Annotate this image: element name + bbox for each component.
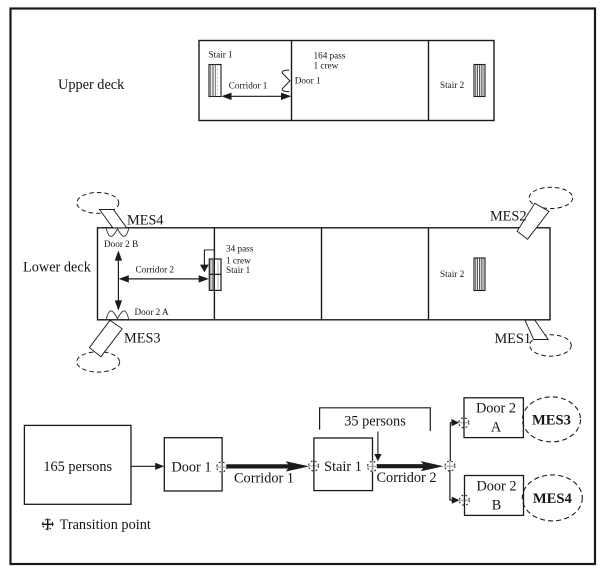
svg-text:Stair 1: Stair 1 [209,50,234,60]
stair symbol Stair 2 (lower deck) [474,258,485,291]
svg-text:Corridor 2: Corridor 2 [377,470,437,486]
35 persons bracket [320,408,431,431]
Corridor 1 flow arrow (thick) [227,461,309,471]
transition point at Door 1 exit [216,461,227,472]
svg-text:MES4: MES4 [533,491,573,507]
stair symbol Stair 2 (upper deck) [474,65,485,97]
MES3 evacuation slide [89,320,122,356]
svg-text:A: A [491,420,502,436]
svg-text:Door 2 B: Door 2 B [104,239,138,249]
lower deck bulkhead divider 2 [321,228,323,320]
svg-text:Lower deck: Lower deck [23,260,92,276]
corridor 1 span arrow (double headed) [221,93,291,100]
stair symbol Stair 1 (upper deck) [209,65,221,97]
MES3 terminal ellipse [523,397,581,442]
MES4 liferaft ellipse [77,193,119,214]
MES2 evacuation slide [517,203,549,239]
svg-text:165 persons: 165 persons [43,459,112,475]
transition point at Stair 1 exit [367,461,378,472]
stair symbol Stair 1 (lower deck) [209,259,221,290]
svg-text:Upper deck: Upper deck [58,77,125,93]
Door 1 node box [164,438,222,491]
Door 2 B node box [465,476,524,516]
lower deck outline [98,228,551,320]
transition point at Door 2 A [458,417,469,428]
corridor 2 span arrow (double headed) [119,275,209,282]
svg-text:Stair 1: Stair 1 [324,459,362,475]
MES3 liferaft ellipse [77,352,120,372]
flow pointer into stair 1 (lower deck) [200,250,214,272]
svg-text:Door 2 A: Door 2 A [135,307,170,317]
svg-text:Corridor 1: Corridor 1 [229,81,268,91]
svg-text:Stair 2: Stair 2 [440,269,465,279]
svg-text:Door 2: Door 2 [476,401,516,417]
svg-text:Door 2: Door 2 [476,478,516,494]
svg-text:MES4: MES4 [127,213,164,229]
door width span arrow (vertical double headed) [115,250,122,310]
svg-text:Corridor 2: Corridor 2 [136,265,175,275]
upper deck outline [199,41,494,121]
branch line to Door 2 A [450,419,459,461]
upper deck bulkhead divider 2 [428,41,430,121]
door symbol Door 1 (upper deck) [282,70,290,91]
upper deck bulkhead divider 1 [291,41,293,121]
door opening mark Door 2 A [106,311,128,319]
svg-text:Corridor 1: Corridor 1 [234,470,294,486]
branch transition point [444,461,455,472]
legend transition point symbol [42,519,54,531]
svg-text:B: B [492,498,502,514]
svg-text:Door 1: Door 1 [295,76,321,86]
Corridor 2 flow arrow (thick) [377,461,443,471]
Stair 1 node box [314,438,373,491]
flow arrow 165 persons to Door 1 [131,463,164,470]
svg-text:Transition point: Transition point [60,517,151,533]
source box 165 persons [24,425,131,504]
svg-text:Door 1: Door 1 [171,459,211,475]
svg-text:Stair 2: Stair 2 [440,80,465,90]
svg-text:MES3: MES3 [532,412,571,428]
door opening mark Door 2 B [106,229,128,237]
lower deck bulkhead divider 3 [428,228,430,320]
svg-text:MES1: MES1 [494,331,531,347]
branch line to Door 2 B [450,470,460,504]
bracket pointer arrow to transition point [374,432,381,462]
transition point at Stair 1 entry [308,460,319,471]
Door 2 A node box [464,398,523,438]
svg-text:35 persons: 35 persons [344,414,406,430]
svg-text:Stair 1: Stair 1 [226,265,251,275]
transition point at Door 2 B [459,495,470,506]
MES4 evacuation slide [100,210,127,228]
MES1 liferaft ellipse [530,335,572,356]
svg-text:164 pass: 164 pass [314,51,346,61]
MES4 terminal ellipse [522,475,582,521]
svg-text:34 pass: 34 pass [226,244,254,254]
svg-text:MES3: MES3 [124,331,161,347]
svg-text:MES2: MES2 [490,209,527,225]
MES1 evacuation slide [525,320,548,339]
svg-text:1 crew: 1 crew [314,61,339,71]
MES2 liferaft ellipse [529,187,573,208]
lower deck bulkhead divider 1 [213,228,215,320]
